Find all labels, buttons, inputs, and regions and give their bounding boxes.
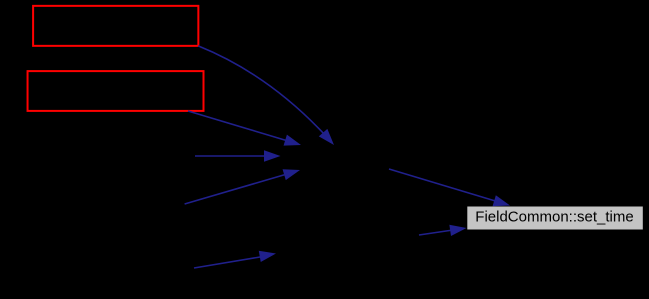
- edge C (horizontal line from hidden node to center node): [195, 150, 281, 161]
- svg-text:FieldCommon::set_time: FieldCommon::set_time: [475, 208, 633, 225]
- node N2 (red truncated caller box, lower): [28, 71, 204, 111]
- node FieldCommon::set_time (grey filled box): [467, 207, 643, 230]
- node N1 (red truncated caller box, top): [33, 6, 198, 46]
- edge G (short line from hidden node to FieldCommon::set_time left edge): [419, 225, 467, 236]
- edge F (line from center node to FieldCommon::set_time top edge): [389, 169, 510, 206]
- edge D (line from hidden node up-right to center node): [185, 169, 300, 204]
- edge E (line from hidden node bottom-left, up-right): [194, 251, 276, 268]
- edge B (line from red box N2 to center node): [188, 111, 301, 146]
- edge A (curve from red box N1 to center node): [198, 46, 334, 145]
